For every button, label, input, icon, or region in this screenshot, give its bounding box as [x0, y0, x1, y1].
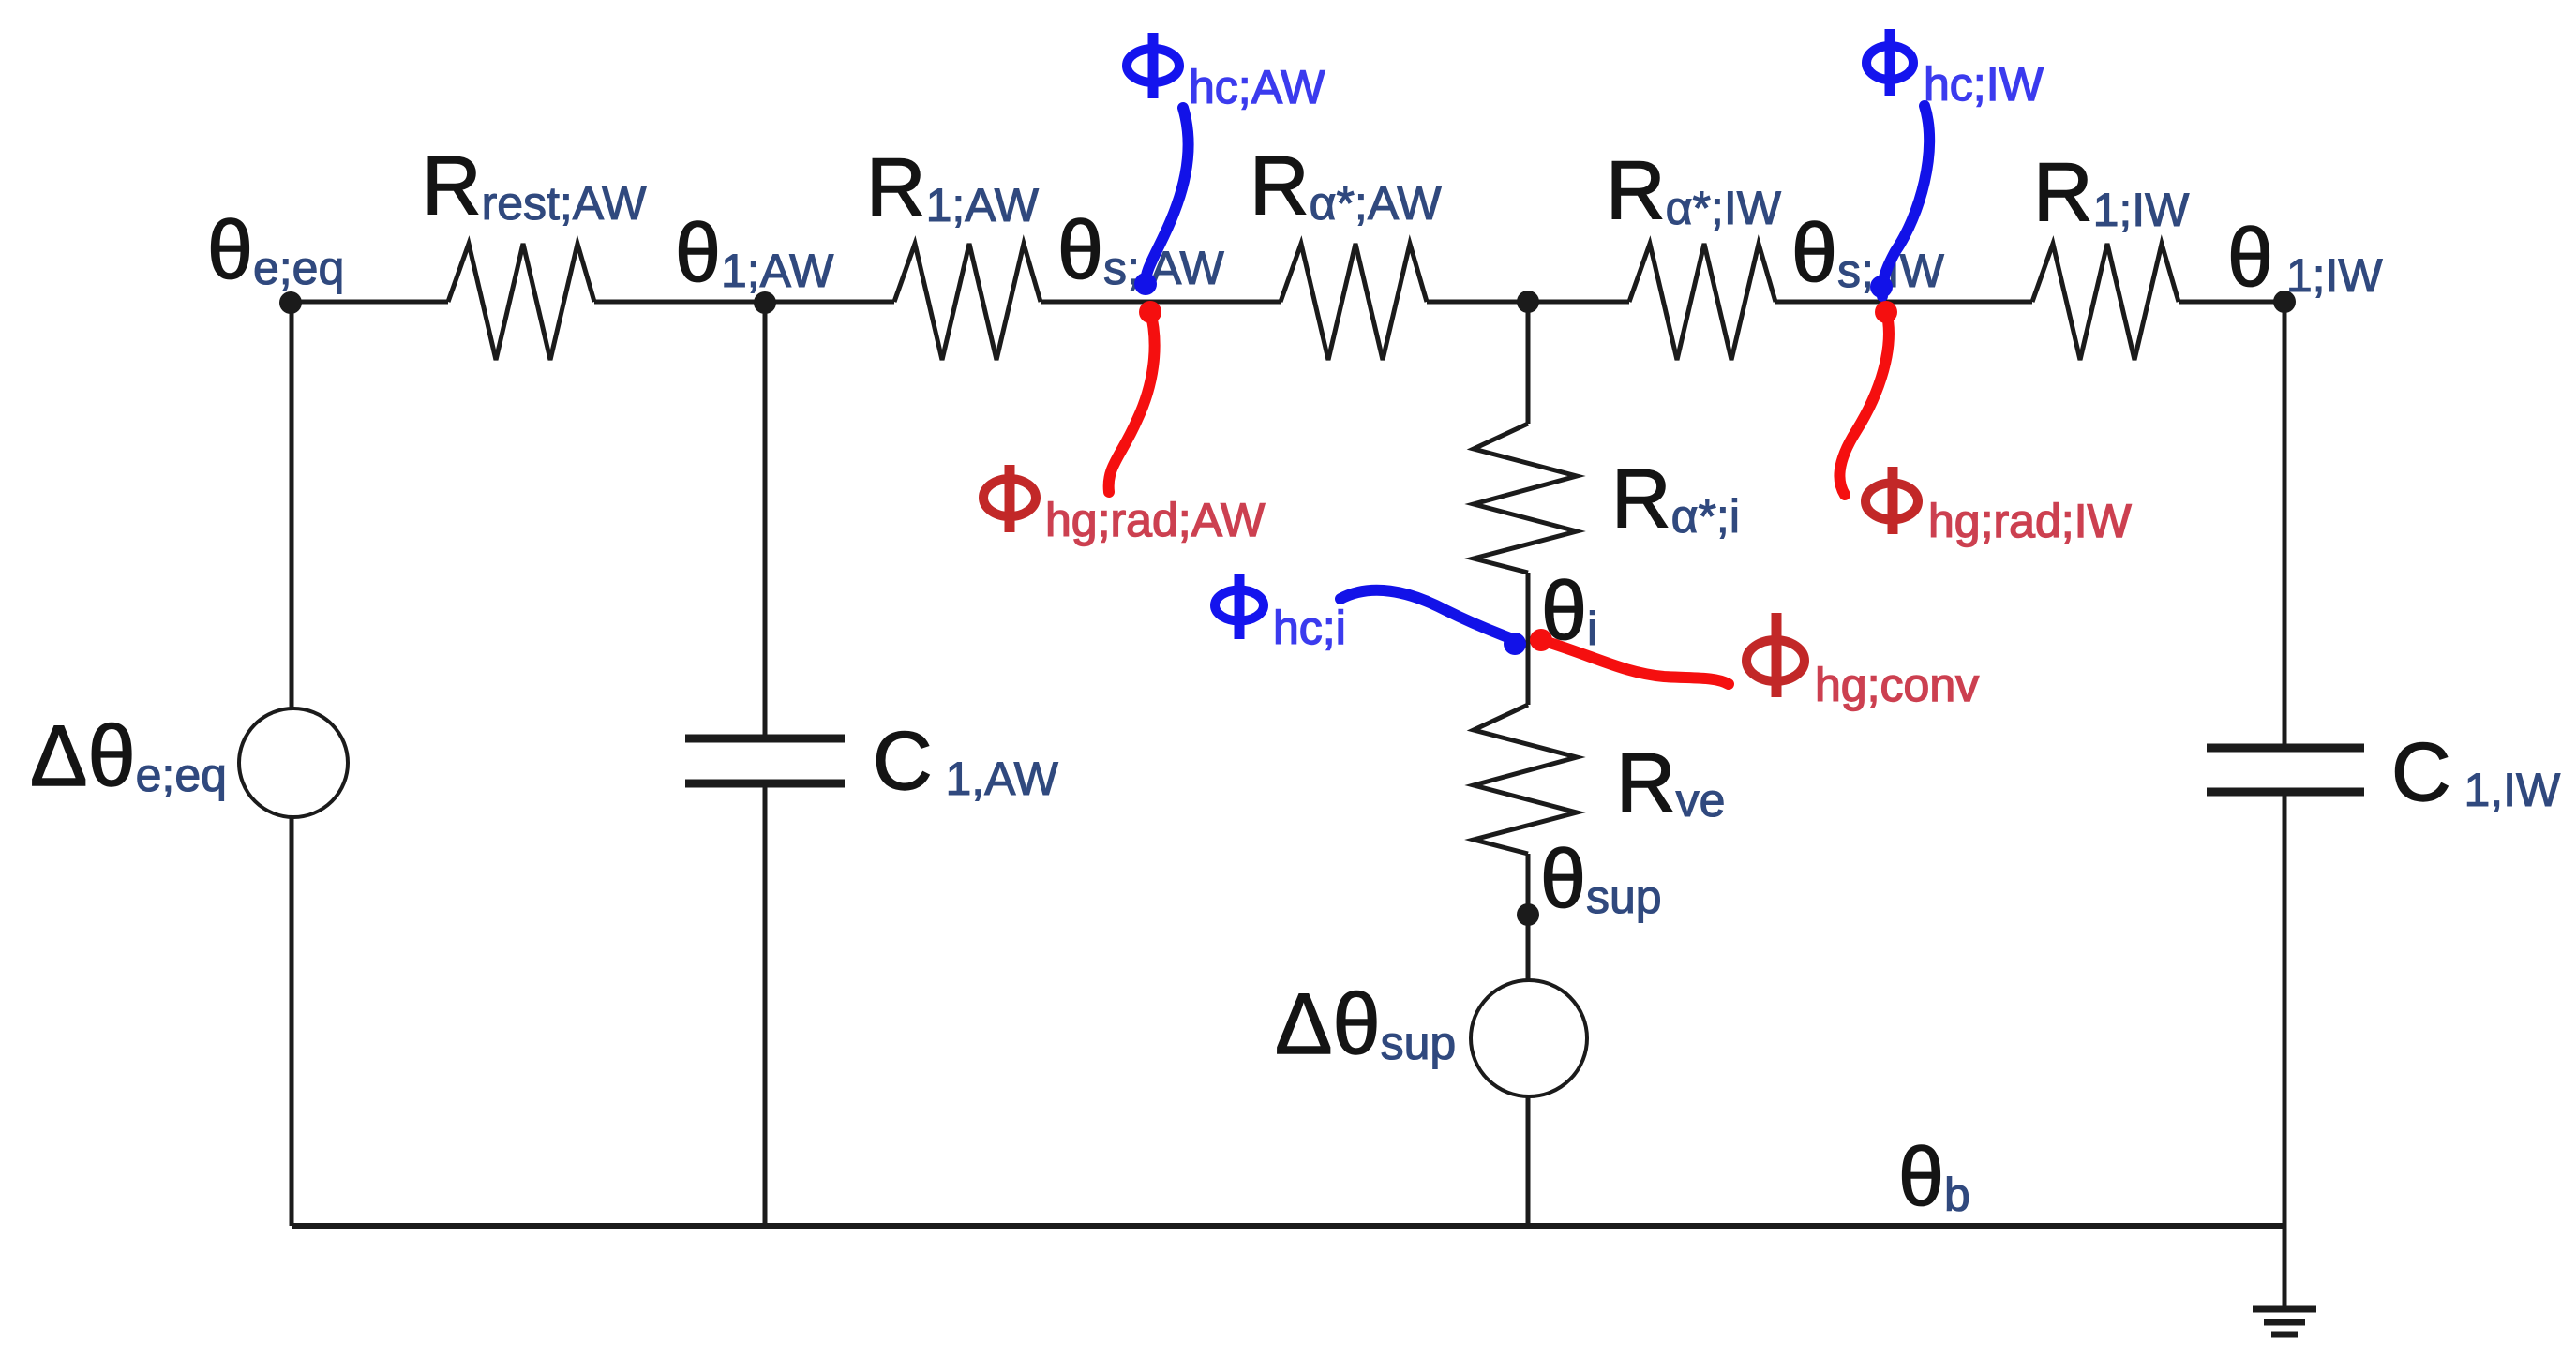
source Δθsup: [1275, 976, 1587, 1096]
svg-text:hc;i: hc;i: [1273, 602, 1346, 654]
svg-text:hc;AW: hc;AW: [1189, 61, 1325, 113]
resistor R1;AW: [866, 141, 1041, 360]
svg-text:hc;IW: hc;IW: [1924, 58, 2044, 111]
resistor Rve: [1474, 705, 1725, 854]
resistor Rrest;AW: [422, 139, 647, 360]
node θ1;IW: [2227, 211, 2383, 313]
resistor R1;IW: [2032, 145, 2190, 360]
capacitor C1,IW: [2207, 725, 2561, 818]
heat flow Φhg;rad;AW: [983, 301, 1266, 546]
heat flow Φhg;conv: [1530, 613, 1979, 711]
ground: [2253, 1309, 2316, 1334]
resistor Ra*;AW: [1250, 139, 1442, 360]
svg-text:hg;rad;IW: hg;rad;IW: [1928, 495, 2133, 547]
svg-text:hg;conv: hg;conv: [1815, 659, 1979, 711]
wire center branch: [1526, 302, 1531, 1226]
heat flow Φhc;i: [1215, 574, 1526, 655]
wire top rail: [291, 300, 2284, 305]
node θsup: [1517, 832, 1662, 926]
resistor Ra*;i: [1474, 424, 1740, 573]
heat flow Φhg;rad;IW: [1839, 301, 2132, 547]
heat flow Φhc;IW: [1866, 29, 2044, 298]
node θ1;AW: [675, 206, 834, 314]
node center junction: [1517, 291, 1539, 313]
wire C1,AW branch: [763, 302, 768, 1226]
capacitor C1,AW: [685, 714, 1059, 807]
wire bottom rail: [292, 1223, 2284, 1229]
node θe;eq: [207, 203, 344, 314]
heat flow Φhc;AW: [1127, 33, 1325, 295]
wire right branch: [2283, 302, 2287, 1308]
wire left branch: [290, 302, 294, 1226]
resistor Ra*;IW: [1606, 143, 1782, 360]
svg-text:hg;rad;AW: hg;rad;AW: [1045, 494, 1266, 546]
source Δθe;eq: [30, 708, 348, 817]
